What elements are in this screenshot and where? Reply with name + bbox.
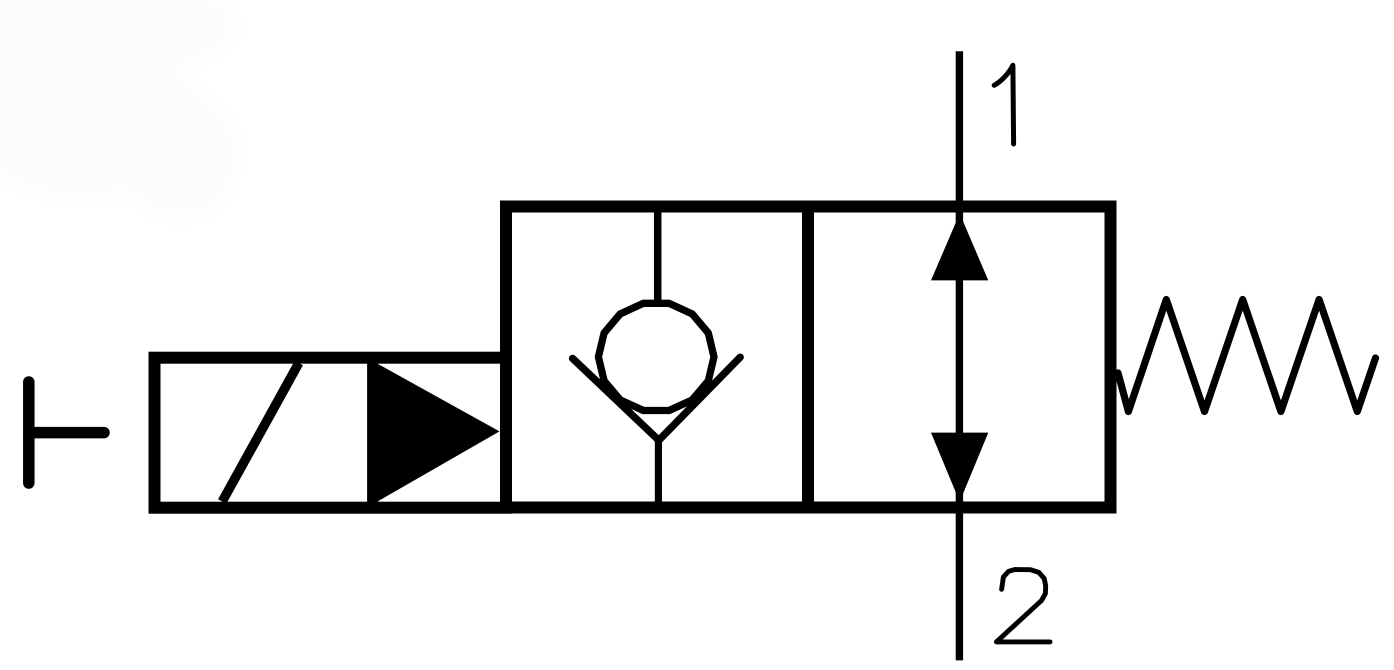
flow arrow down head: [931, 433, 988, 502]
valve body chamber divider: [802, 207, 814, 514]
check valve upper flow line: [654, 209, 662, 306]
return spring zigzag: [1118, 300, 1376, 412]
solenoid box divider: [367, 352, 378, 513]
faint watermark smudge top-left: [0, 0, 235, 217]
port label 2: [996, 570, 1050, 642]
valve body outer box: [506, 207, 1111, 508]
manual override T vertical bar: [23, 382, 35, 483]
check valve seat right: [659, 357, 740, 440]
solenoid box outline: [155, 358, 507, 508]
check valve seat left: [573, 358, 659, 440]
solenoid triangle: [378, 364, 500, 502]
check valve poppet ball (segmented circle): [598, 303, 714, 410]
port line 1-2 vertical: [956, 51, 963, 660]
port label 1: [994, 65, 1013, 144]
check valve lower flow line: [655, 438, 662, 508]
solenoid diagonal stroke: [222, 363, 299, 502]
manual override T horizontal bar: [29, 427, 104, 439]
flow arrow up head: [931, 214, 988, 281]
